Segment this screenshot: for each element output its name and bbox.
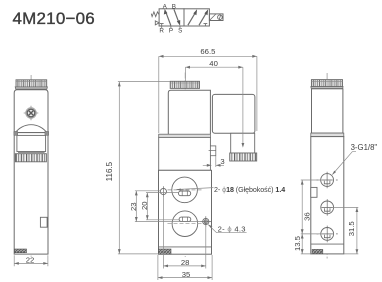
left knurled cap xyxy=(15,80,47,89)
mounting hole 1 xyxy=(160,186,166,197)
mounting hole 2 xyxy=(201,216,212,227)
dim 40 extensions xyxy=(185,67,243,143)
dim 36 extensions xyxy=(301,180,321,254)
right gasket band xyxy=(311,133,344,137)
right muffler hatch xyxy=(312,249,323,253)
middle muffler hatch xyxy=(159,249,172,254)
svg-text:4M210−06: 4M210−06 xyxy=(13,9,95,28)
port circle 1 xyxy=(172,177,198,203)
circle2 dashed centerline xyxy=(168,223,210,225)
middle solenoid body xyxy=(168,90,210,134)
DIN connector housing xyxy=(212,94,255,133)
svg-text:2- ϕ 4.3: 2- ϕ 4.3 xyxy=(218,225,246,234)
port circle 2 xyxy=(172,211,198,237)
svg-text:3: 3 xyxy=(220,157,224,166)
dim 31.5 line xyxy=(356,207,358,254)
dome chord line xyxy=(14,132,48,134)
centerline middle view xyxy=(184,73,186,258)
pilot triangle xyxy=(155,21,159,25)
left muffler hatch xyxy=(15,249,27,253)
left solenoid body xyxy=(14,90,48,133)
connector neck xyxy=(231,133,255,153)
leader 3-G1/8 xyxy=(332,152,356,175)
svg-text:S: S xyxy=(178,28,182,35)
right clamp block xyxy=(45,131,49,135)
connector axis arrow xyxy=(242,143,245,148)
dim 3 arrows xyxy=(203,164,224,166)
svg-text:P: P xyxy=(169,28,173,35)
dim 35 line xyxy=(158,277,212,279)
right main body xyxy=(311,137,344,254)
dim 116.5 line xyxy=(118,82,120,254)
right body bottom line xyxy=(311,243,344,245)
adapter section xyxy=(159,137,211,170)
flow arrow 2 pos2 xyxy=(199,13,207,26)
blocked port tee pos2 xyxy=(204,24,208,26)
flow arrow 1 pos2 xyxy=(188,13,196,26)
right solenoid body xyxy=(312,89,343,133)
svg-text:20: 20 xyxy=(140,201,149,210)
port slot 1 xyxy=(179,191,191,196)
svg-text:66.5: 66.5 xyxy=(200,47,215,56)
svg-text:3-G1/8": 3-G1/8" xyxy=(351,143,378,152)
dim 35 extensions xyxy=(158,255,212,280)
valve box position 2 xyxy=(184,9,209,26)
left clamp block xyxy=(14,131,18,135)
tab tick xyxy=(209,150,216,152)
blocked port R tee xyxy=(160,24,164,26)
dim 23 extensions xyxy=(135,191,203,222)
solenoid manual override circle xyxy=(218,15,223,20)
flow path P to A with arrow xyxy=(166,12,171,25)
step line xyxy=(18,151,45,153)
note leader phi18 xyxy=(177,188,214,190)
dim 28 extensions xyxy=(163,196,205,269)
connector inner box xyxy=(17,135,46,151)
dome arc xyxy=(15,125,46,133)
side tab xyxy=(210,146,215,156)
dim 23 line xyxy=(135,191,137,222)
left view lower housing xyxy=(14,133,48,255)
svg-text:22: 22 xyxy=(26,255,35,264)
body bottom line xyxy=(159,246,212,248)
G port circle 2 xyxy=(321,199,334,216)
valve box position 1 xyxy=(159,9,184,26)
right side notch xyxy=(311,187,317,197)
left knurled ring xyxy=(15,154,46,162)
svg-text:31.5: 31.5 xyxy=(347,221,356,236)
22 dim line with arrows xyxy=(14,262,48,264)
svg-text:23: 23 xyxy=(129,202,138,211)
side port box xyxy=(40,217,47,227)
right knurled cap xyxy=(311,80,343,89)
connector knurled nut xyxy=(230,153,257,161)
dim 20 extensions xyxy=(146,193,179,220)
svg-text:B: B xyxy=(172,3,176,10)
22 dim extension lines xyxy=(14,255,48,266)
dim 3 extension xyxy=(215,156,217,167)
svg-text:2- ϕ18 (Głębokość) 1.4: 2- ϕ18 (Głębokość) 1.4 xyxy=(214,186,285,194)
port slot 2 xyxy=(179,217,191,221)
dim 31.5 extensions xyxy=(334,207,359,254)
dim 66.5 line xyxy=(159,55,257,57)
note leader phi4.3 xyxy=(208,225,246,233)
svg-text:13.5: 13.5 xyxy=(293,236,302,251)
return spring xyxy=(151,12,159,17)
dim 36 and 13.5 shared line xyxy=(301,180,303,254)
G port circle 1 xyxy=(317,172,338,189)
dim 28 line xyxy=(163,265,205,267)
svg-text:R: R xyxy=(159,28,164,35)
dim 40 line xyxy=(185,66,243,68)
flow path B to S with arrow xyxy=(174,10,179,23)
centerline left view xyxy=(30,75,32,258)
middle knurled cap xyxy=(170,81,199,88)
svg-text:35: 35 xyxy=(182,270,191,279)
gasket band xyxy=(159,134,211,137)
dim 20 line xyxy=(146,193,148,220)
left screw xyxy=(24,106,39,121)
main valve body xyxy=(159,170,212,254)
circle1 dashed centerline xyxy=(168,189,203,191)
svg-text:40: 40 xyxy=(209,59,218,68)
solenoid box with slash xyxy=(209,14,223,21)
svg-text:116.5: 116.5 xyxy=(105,161,114,181)
dim 66.5 extensions xyxy=(159,56,257,133)
G port circle 3 xyxy=(317,226,338,243)
svg-text:36: 36 xyxy=(302,212,311,221)
dim 116.5 extensions xyxy=(118,82,170,254)
centerline right view xyxy=(326,73,328,259)
port stubs R P S xyxy=(162,26,180,28)
pneumatic valve symbol xyxy=(151,9,223,28)
svg-text:28: 28 xyxy=(181,258,190,267)
